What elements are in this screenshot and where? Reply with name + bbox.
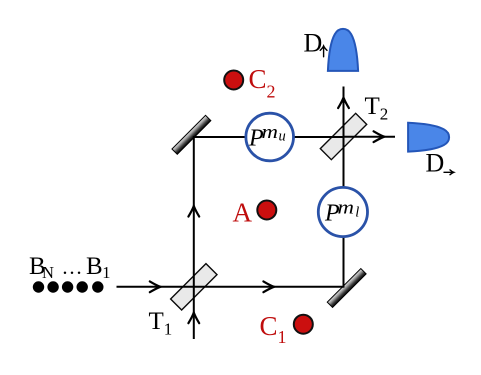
arrowhead on bottom arm (263, 281, 274, 292)
wire top arm (193, 136, 344, 138)
svg-text:D: D (426, 149, 445, 178)
arrowhead on T2 right output (374, 131, 385, 142)
atom A red dot (257, 201, 276, 220)
svg-text:D: D (304, 29, 323, 58)
beam splitter T2 (320, 113, 366, 159)
arrowhead on lower input vertical (188, 313, 199, 324)
atom C1 red dot (294, 315, 313, 334)
svg-text:BN…B1: BN…B1 (29, 253, 111, 282)
beam splitter T1 (171, 264, 217, 310)
svg-text:m: m (338, 197, 355, 218)
mirror M-upper-left (172, 115, 211, 154)
arrowhead on input wire (150, 281, 161, 292)
svg-text:u: u (279, 129, 286, 145)
wire right arm (343, 137, 345, 288)
arrowhead on T2 up output (338, 98, 349, 109)
input photons B dots (33, 281, 104, 292)
arrowhead on left arm (188, 206, 199, 217)
wire input+bottom horizontal (117, 286, 344, 288)
wire T2 up output (343, 87, 345, 138)
mirror M-lower-right (327, 269, 366, 308)
atom C2 red dot (224, 71, 243, 90)
svg-text:m: m (262, 122, 279, 143)
svg-text:l: l (355, 204, 359, 220)
wire input vertical + left arm (193, 137, 195, 339)
svg-text:A: A (233, 198, 253, 228)
detector D-up (328, 29, 358, 71)
wire T2 right output (344, 136, 396, 138)
detector D-right (408, 123, 449, 152)
phase shifter U2 P^ml circle (318, 187, 367, 236)
phase shifter U1 P^mu circle (246, 113, 294, 161)
